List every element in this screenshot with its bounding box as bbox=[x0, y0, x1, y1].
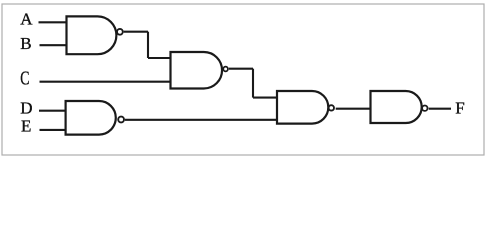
svg-text:B: B bbox=[20, 34, 31, 53]
wire A to U1 pin 1 bbox=[39, 21, 67, 23]
wire B to U1 pin 2 bbox=[40, 44, 67, 46]
node F bbox=[455, 98, 464, 117]
node E bbox=[21, 116, 31, 135]
svg-text:C: C bbox=[20, 68, 29, 90]
node C bbox=[20, 68, 29, 90]
wire U2 output vertical drop bbox=[252, 69, 254, 98]
wire U4 output to U5 input bbox=[336, 108, 371, 110]
wire into U2 pin 1 bbox=[148, 57, 171, 59]
nand gate U4 (inputs U2 out, U3 out) bbox=[277, 91, 334, 124]
wire into U4 pin 1 bbox=[253, 97, 277, 99]
node B bbox=[20, 34, 31, 53]
wire U2 output horizontal bbox=[229, 68, 253, 70]
svg-text:D: D bbox=[20, 99, 32, 118]
nand gate U5 (inverter, input U4 out) bbox=[371, 91, 428, 123]
svg-text:A: A bbox=[20, 10, 33, 29]
wire C to U2 pin 2 bbox=[40, 81, 171, 83]
wire D to U3 pin 1 bbox=[39, 110, 66, 112]
nand gate U3 (inputs D,E) bbox=[66, 101, 124, 135]
node D bbox=[20, 99, 32, 118]
wire U1 output vertical drop bbox=[147, 32, 149, 58]
wire E to U3 pin 2 bbox=[40, 129, 66, 131]
svg-text:E: E bbox=[21, 116, 31, 135]
node A bbox=[20, 10, 33, 29]
svg-text:F: F bbox=[455, 98, 464, 117]
wire U1 output horizontal bbox=[124, 31, 148, 33]
wire U3 output to U4 pin 2 bbox=[125, 119, 277, 121]
nand gate U2 (inputs U1 out, C) bbox=[171, 52, 228, 89]
wire U5 output to F bbox=[429, 108, 451, 110]
nand gate U1 (inputs A,B) bbox=[67, 16, 123, 54]
